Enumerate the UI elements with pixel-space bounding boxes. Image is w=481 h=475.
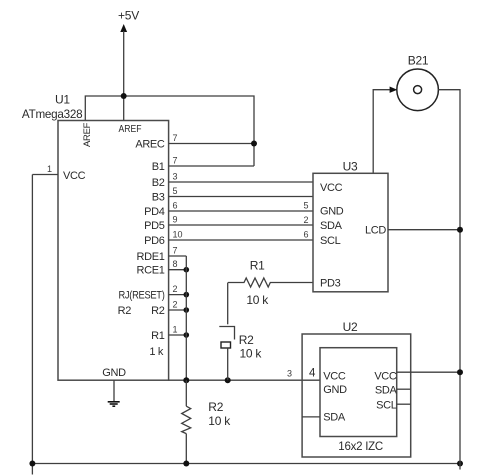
pin U3 GND 5 [303,200,343,217]
node right rail/bottom [457,461,463,467]
resistor R1 10k [228,259,313,307]
svg-text:SCL: SCL [376,400,397,412]
svg-text:6: 6 [173,201,178,211]
svg-text:8: 8 [173,259,178,269]
svg-text:5: 5 [303,200,308,210]
pin RCE1 8 [137,259,187,276]
svg-text:10 k: 10 k [208,414,231,428]
svg-text:PD3: PD3 [320,277,341,289]
wire PD6 to U3 SCL [144,230,313,247]
pin GND [102,367,126,401]
svg-text:10 k: 10 k [246,293,269,307]
node R2/bottom [183,461,189,467]
svg-text:B3: B3 [152,191,165,203]
svg-text:VCC: VCC [323,370,346,382]
ground [108,402,120,406]
svg-text:1: 1 [173,325,178,335]
wire B21 right lead [438,90,460,470]
pin RJ(RESET) 2 [119,284,187,301]
svg-text:10: 10 [173,230,183,240]
svg-text:9: 9 [173,215,178,225]
svg-text:7: 7 [173,133,178,143]
svg-text:SDA: SDA [320,220,343,232]
svg-text:R1: R1 [250,259,265,273]
pin U3 LCD [365,225,460,237]
svg-text:RDE1: RDE1 [137,251,165,263]
pin VCC 1 [32,164,85,182]
svg-text:VCC: VCC [320,182,343,194]
svg-text:VCC: VCC [374,370,397,382]
svg-text:R2: R2 [239,333,254,347]
wire PD4 to U3 GND [144,201,313,218]
pin U2 SCL (right) [376,400,411,412]
wire B21 left lead [373,90,390,174]
svg-text:7: 7 [173,156,178,166]
svg-text:B21: B21 [408,54,429,68]
svg-text:U1: U1 [55,93,70,107]
svg-text:AREF: AREF [82,122,93,147]
wire B2 to U3 VCC [152,172,313,189]
pin U3 SDA 2 [303,215,342,232]
pin U2 VCC 4 (left) [287,368,346,383]
svg-text:1: 1 [47,164,52,174]
node R1 junction [184,332,190,338]
arrow into B21 [390,87,398,93]
svg-text:+5V: +5V [118,9,139,23]
pin U2 SDA (left) [302,411,346,423]
node +5V/AREF junction [121,93,127,99]
svg-text:U2: U2 [343,320,358,334]
IC U3 LCD driver [313,160,388,292]
svg-text:6: 6 [303,229,308,239]
svg-text:AREF: AREF [119,123,142,135]
svg-text:R2: R2 [208,400,223,414]
svg-text:2: 2 [173,300,178,310]
node LCD junction [457,227,463,233]
node bus/bottom junction [183,377,189,383]
wire PD5 to U3 SDA [144,215,313,232]
svg-text:ATmega328: ATmega328 [22,107,83,121]
svg-text:5: 5 [173,186,178,196]
power symbol +5V [118,9,139,121]
svg-text:GND: GND [323,384,347,396]
svg-text:7: 7 [173,246,178,256]
pin U3 SCL 6 [303,229,340,247]
pin AREC 7 [135,133,254,150]
pin R2 2 [118,300,187,317]
svg-text:U3: U3 [343,160,358,174]
svg-text:GND: GND [320,205,344,217]
wire B3 to U3 [152,186,313,203]
node U2 VCC junction [457,369,463,375]
resistor R2 10k (pulldown) [182,380,232,463]
svg-text:R2: R2 [151,305,165,317]
svg-text:GND: GND [102,367,126,379]
node RESET junction [184,292,190,298]
pin U2 VCC (right) [374,370,460,382]
svg-text:R2: R2 [118,305,132,317]
wire left rail [31,175,33,475]
node RCE1 junction [184,267,190,273]
svg-text:RJ(RESET): RJ(RESET) [119,289,165,301]
wire bottom node row [169,379,320,381]
svg-text:4: 4 [309,368,316,380]
svg-text:SDA: SDA [375,384,398,396]
module U2 16x2 I2C [302,320,411,457]
svg-text:2: 2 [303,215,308,225]
svg-text:PD5: PD5 [144,220,165,232]
IC U1 ATmega328 [22,93,169,381]
svg-text:B2: B2 [152,177,165,189]
node left rail/bottom [29,461,35,467]
svg-text:2: 2 [173,284,178,294]
node AREC junction [251,141,257,147]
pin B1 7 [152,156,254,173]
wire pins bus vertical [185,256,187,380]
pin RDE1 7 [137,246,187,263]
node R2 junction [184,307,190,313]
pin R1 1 [149,325,186,358]
wire bottom rail [32,463,460,465]
node button/bottom junction [225,377,231,383]
buzzer B21 [397,54,439,111]
svg-text:1 k: 1 k [149,346,163,358]
svg-text:SDA: SDA [323,411,346,423]
svg-text:B1: B1 [152,161,165,173]
svg-text:SCL: SCL [320,235,341,247]
svg-text:16x2 IZC: 16x2 IZC [338,439,383,453]
svg-text:VCC: VCC [63,170,86,182]
svg-text:10 k: 10 k [240,347,263,361]
wire AREF top horizontal [85,96,254,166]
svg-text:PD4: PD4 [144,206,165,218]
svg-text:LCD: LCD [365,225,386,237]
svg-text:R1: R1 [151,330,165,342]
svg-text:PD6: PD6 [144,235,165,247]
svg-text:3: 3 [173,172,178,182]
svg-text:AREC: AREC [135,138,165,150]
pin U2 SDA (right) [375,384,411,396]
svg-text:3: 3 [287,369,292,379]
svg-text:RCE1: RCE1 [137,265,165,277]
switch R2 10k (pushbutton) [219,283,262,381]
